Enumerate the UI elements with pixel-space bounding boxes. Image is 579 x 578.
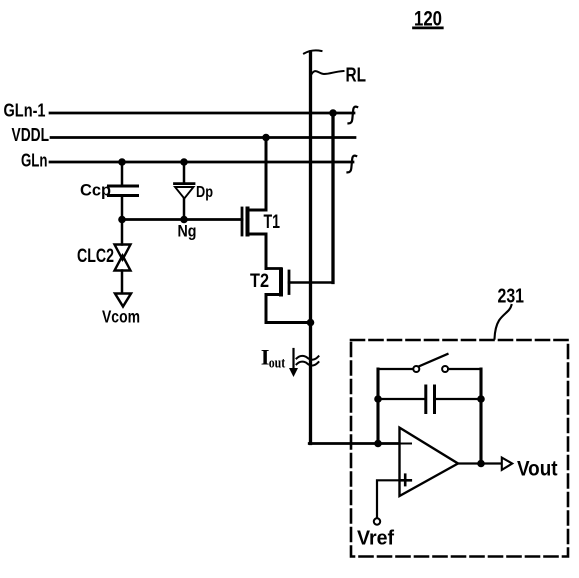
op-amp plus sign	[400, 475, 411, 485]
node junction Dp top on GLn	[180, 158, 188, 166]
capacitor CLC2 (liquid crystal)	[115, 220, 131, 294]
node junction input/feedback	[374, 440, 382, 448]
RL top end tick	[304, 50, 322, 53]
capacitor feedback	[378, 386, 481, 413]
wire node Ng horizontal	[122, 218, 242, 221]
node junction T1 drain on VDDL	[262, 134, 270, 142]
node junction Dp bottom	[180, 216, 188, 224]
wire RL vertical	[309, 52, 312, 444]
svg-text:GLn-1: GLn-1	[4, 101, 46, 121]
svg-text:Vcom: Vcom	[102, 307, 140, 327]
RL leader squiggle	[312, 71, 344, 74]
transistor T2	[266, 269, 333, 323]
wire VDDL row line	[51, 136, 355, 139]
GLn cut terminator	[348, 156, 357, 173]
current Iout arrow	[289, 349, 298, 377]
diode Dp	[175, 162, 195, 220]
wire op-amp input line	[309, 442, 411, 445]
op-amp minus input dash	[401, 443, 411, 445]
svg-text:Ng: Ng	[178, 223, 197, 241]
dashed box 231	[351, 340, 568, 557]
node junction T2 source to RL line	[307, 319, 315, 327]
capacitor Ccp	[109, 162, 138, 220]
svg-text:Dp: Dp	[196, 184, 213, 201]
wire GLn row line	[50, 161, 353, 164]
svg-text:Vref: Vref	[357, 528, 394, 550]
231 leader curve	[495, 305, 512, 339]
node junction cap left	[374, 395, 382, 403]
svg-text:T1: T1	[264, 212, 281, 233]
wire feedback right vertical	[479, 369, 482, 464]
node junction Ccp top on GLn	[118, 158, 126, 166]
svg-text:T2: T2	[250, 271, 269, 292]
svg-text:RL: RL	[346, 65, 367, 87]
transistor T1 drain wire from VDDL	[248, 138, 266, 211]
svg-text:Ccp: Ccp	[80, 182, 111, 200]
wire GLn-1 row line	[50, 112, 354, 115]
svg-text:Vout: Vout	[517, 457, 558, 480]
switch (reset)	[378, 354, 481, 372]
wire op-amp output	[458, 462, 501, 464]
wire feedback left vertical	[376, 369, 379, 444]
label Iout	[261, 344, 286, 371]
node junction Ccp bottom	[118, 216, 126, 224]
wire second vertical from GLn-1 to T2 gate	[331, 113, 334, 283]
terminal Vcom triangle	[115, 294, 131, 307]
svg-text:VDDL: VDDL	[12, 125, 50, 145]
transistor T1	[242, 208, 266, 269]
title 120	[414, 8, 443, 31]
terminal Vref circle	[374, 518, 380, 524]
op-amp U1	[400, 428, 459, 496]
node junction on GLn-1	[329, 109, 337, 117]
wire non-inverting input	[377, 480, 400, 518]
node junction cap right	[477, 395, 485, 403]
svg-text:out: out	[269, 356, 286, 372]
wire break marks at Iout	[297, 356, 319, 366]
svg-text:CLC2: CLC2	[77, 246, 114, 267]
terminal Vout arrow	[502, 458, 512, 470]
svg-text:GLn: GLn	[21, 151, 48, 171]
node junction output/feedback	[477, 460, 485, 468]
GLn-1 cut terminator	[349, 107, 358, 124]
